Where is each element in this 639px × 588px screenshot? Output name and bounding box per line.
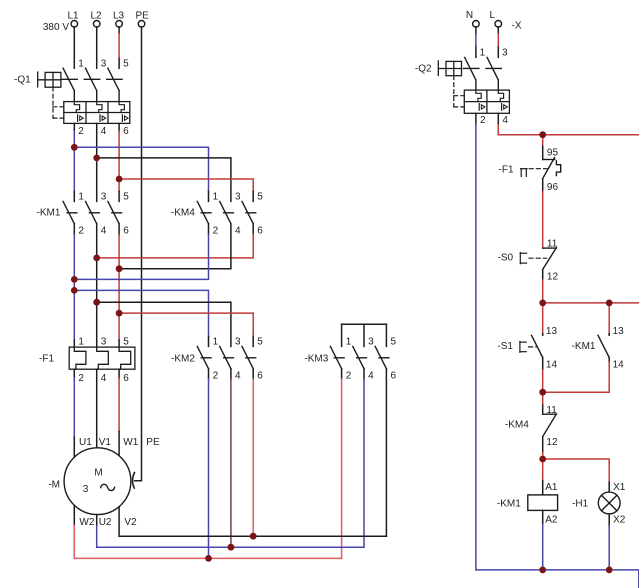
wire blue rail U2 to KM3 pole2 (97, 546, 364, 548)
contactor KM2 pole2 contact (220, 346, 234, 368)
node V2 rail / KM2-6 (250, 533, 257, 540)
svg-text:PE: PE (136, 11, 150, 22)
KM3 star bridge bar (342, 323, 387, 325)
wire S0 to junction (542, 269, 544, 280)
svg-text:4: 4 (101, 226, 107, 237)
breaker Q2 pole 1 contact (464, 57, 479, 90)
svg-text:-S0: -S0 (498, 253, 514, 264)
svg-text:4: 4 (368, 371, 374, 382)
motor PE chassis arc (132, 473, 134, 489)
wire S1 branch drop (542, 303, 544, 334)
wire L3 to Q1 (118, 27, 120, 68)
wire F1 pole1 to motor U1 (73, 369, 75, 378)
breaker Q1 thermal element pole1 (74, 102, 79, 113)
svg-text:-KM1: -KM1 (37, 208, 61, 219)
wire Q1 pole1 output stub (73, 123, 75, 131)
breaker Q1 pole 3 contact (107, 68, 122, 101)
wire junction3 branch to lamp (543, 459, 610, 482)
svg-text:A1: A1 (545, 482, 558, 493)
node coil/lamp feed (539, 456, 546, 463)
svg-text:5: 5 (257, 192, 263, 203)
wire KM3 bridge to pole3 (385, 324, 387, 346)
breaker Q2 magnetic element pole1 (479, 104, 485, 111)
wire PE vertical (135, 27, 142, 481)
contactor KM3 pole3 contact (375, 346, 389, 368)
wire motor V2 black (118, 507, 120, 536)
node L1-KM4 branch (71, 144, 78, 151)
wire KM1 pole1 to F1 blue (73, 224, 75, 235)
breaker Q1 thermal element pole3 (119, 102, 124, 113)
svg-text:1: 1 (213, 192, 219, 203)
svg-text:3: 3 (101, 58, 107, 69)
breaker Q2 thermal element pole2 (498, 90, 503, 102)
contactor KM2 pole1 contact (197, 346, 211, 368)
contactor KM1 pole1 contact (63, 201, 77, 223)
breaker Q2 operator square (438, 61, 461, 76)
wire KM1 pole1 to KM2 pole1 blue (74, 290, 208, 336)
node KM1-2/KM4-6 (93, 255, 100, 262)
wire KM2 pole3 bottom red to black rail (252, 369, 254, 379)
svg-text:3: 3 (502, 48, 508, 59)
node KM1-1/KM4-2 (71, 276, 78, 283)
node control L feed (539, 131, 546, 138)
wire KM1 pole2 to F1 black (96, 224, 98, 347)
svg-text:13: 13 (546, 326, 558, 337)
contactor KM2 pole3 contact (242, 346, 256, 368)
node KM1-1/KM2-1 (71, 287, 78, 294)
wire KM2 pole2 bottom maroon to blue rail (230, 369, 232, 379)
svg-text:11: 11 (547, 239, 558, 250)
wire red rail W2 to KM3 pole1 (74, 557, 341, 559)
svg-text:2: 2 (346, 371, 352, 382)
svg-text:6: 6 (123, 373, 129, 384)
node KM1-3/KM4-4 (116, 265, 123, 272)
wire KM1 aux to junction2 (608, 358, 610, 363)
svg-text:11: 11 (546, 405, 557, 416)
wire L phase to top red feed (497, 113, 499, 125)
svg-text:6: 6 (257, 226, 263, 237)
node U2 rail / KM2-4 (228, 544, 235, 551)
S1 pushbutton actuator (520, 342, 526, 353)
node L1 terminal (71, 21, 78, 28)
contactor KM4 pole3 contact (242, 201, 256, 223)
svg-text:3: 3 (235, 192, 241, 203)
S0 pushbutton actuator (520, 253, 526, 264)
svg-text:V2: V2 (124, 517, 137, 528)
svg-text:-F1: -F1 (499, 164, 514, 175)
svg-text:12: 12 (547, 271, 559, 282)
lamp H1 (598, 492, 620, 514)
contactor KM3 pole1 contact (330, 346, 344, 368)
S0 actuator dashed link (529, 257, 547, 259)
wire L to Q2 (497, 27, 499, 58)
svg-text:12: 12 (546, 437, 558, 448)
breaker Q2 thermal element pole1 (476, 90, 481, 102)
motor sine symbol (101, 484, 115, 490)
svg-text:2: 2 (78, 126, 84, 137)
contact KM1 aux NO 13-14 (598, 335, 609, 357)
wire coil A2 to blue rail (542, 510, 544, 524)
node X2 rail (606, 567, 613, 574)
wire lamp X1 stub (608, 482, 610, 492)
wire F1 pole2 to motor V1 (96, 369, 98, 448)
breaker Q2 magnetic element pole2 (502, 104, 508, 111)
svg-text:1: 1 (78, 192, 84, 203)
svg-text:4: 4 (502, 115, 508, 126)
contactor KM1 pole3 contact (108, 201, 122, 223)
svg-text:L1: L1 (68, 11, 80, 22)
node KM1-2/KM2-3 (93, 299, 100, 306)
node L2-KM4 branch (93, 155, 100, 162)
breaker Q2 pole 2 contact (486, 57, 501, 90)
svg-text:2: 2 (78, 226, 84, 237)
contact KM4 NC 11-12 (543, 414, 557, 437)
svg-text:M: M (94, 468, 102, 479)
wire L2 to Q1 (96, 27, 98, 68)
svg-text:-Q1: -Q1 (14, 74, 31, 85)
svg-text:3: 3 (368, 337, 374, 348)
svg-text:4: 4 (235, 226, 241, 237)
wire S1 to junction2 (542, 358, 544, 371)
node PE terminal (138, 21, 145, 28)
svg-text:1: 1 (213, 337, 219, 348)
svg-text:4: 4 (101, 126, 107, 137)
breaker Q2 linkage dashed (454, 76, 465, 107)
node L2 terminal (93, 21, 100, 28)
node L3-KM4 branch (116, 176, 123, 183)
wire black rail V2 to KM3 pole3 (119, 535, 386, 537)
contactor KM1 pole2 contact (86, 201, 100, 223)
svg-text:5: 5 (123, 337, 129, 348)
wire junction2 to KM4 NC (542, 392, 544, 405)
svg-text:6: 6 (123, 226, 129, 237)
node S1/KM1 join (539, 389, 546, 396)
wire KM4 pole2 bottom to KM1 pole3 black (119, 224, 231, 269)
svg-text:-S1: -S1 (497, 341, 513, 352)
wire Q1 pole2 output black Q1 to KM1 (96, 123, 98, 201)
wire KM3 pole1 bottom to red rail (341, 369, 343, 379)
svg-text:5: 5 (123, 58, 129, 69)
wire motor U2 blue (96, 526, 98, 547)
wire motor W2 black stub (73, 505, 75, 525)
svg-text:L2: L2 (91, 11, 103, 22)
coil KM1 (528, 495, 558, 511)
contact S0 NC 11-12 (543, 248, 557, 270)
svg-text:14: 14 (546, 359, 558, 370)
wire junction row red to right edge (543, 302, 639, 304)
svg-text:96: 96 (547, 182, 559, 193)
wire Q1 pole3 output stub (118, 123, 120, 131)
svg-text:W2: W2 (79, 517, 94, 528)
svg-text:L: L (490, 10, 496, 21)
svg-text:6: 6 (123, 126, 129, 137)
svg-text:3: 3 (101, 192, 107, 203)
wire L1 phase blue Q1 to KM1 (73, 131, 75, 191)
svg-text:1: 1 (346, 337, 352, 348)
node S0 out right (606, 300, 613, 307)
svg-text:-X: -X (512, 21, 522, 32)
svg-text:2: 2 (213, 371, 219, 382)
breaker Q1 thermal element pole2 (97, 102, 102, 113)
svg-text:3: 3 (83, 484, 89, 495)
wire black branch to KM4 pole2 (97, 158, 231, 202)
svg-text:95: 95 (547, 148, 559, 159)
svg-text:4: 4 (235, 371, 241, 382)
svg-text:-M: -M (48, 480, 60, 491)
svg-text:2: 2 (213, 226, 219, 237)
svg-text:3: 3 (235, 337, 241, 348)
svg-text:-F1: -F1 (39, 354, 54, 365)
wire F1 NC to S0 (542, 179, 544, 192)
svg-text:N: N (466, 10, 473, 21)
contactor KM4 pole2 contact (220, 201, 234, 223)
wire KM3 pole2 bottom to blue rail (363, 369, 365, 379)
contactor KM3 pole2 contact (353, 346, 367, 368)
svg-text:380 V: 380 V (43, 22, 69, 33)
node L terminal (495, 21, 502, 28)
breaker Q1 magnetic element pole3 (122, 115, 128, 121)
svg-text:4: 4 (101, 373, 107, 384)
contact F1 NC 95-96 (543, 158, 561, 179)
svg-text:V1: V1 (99, 437, 112, 448)
svg-text:-Q2: -Q2 (415, 64, 432, 75)
svg-text:-KM3: -KM3 (304, 354, 328, 365)
svg-text:-H1: -H1 (572, 499, 589, 510)
wire lamp X2 to blue rail (608, 514, 610, 526)
wire motor W2 red (73, 526, 75, 559)
thermal relay F1 box (69, 347, 135, 369)
wire N rail blue down left side (475, 113, 477, 124)
breaker Q2 trip unit box (464, 90, 509, 113)
wire control drop to F1 NC (542, 135, 544, 147)
svg-text:X1: X1 (613, 482, 626, 493)
svg-text:-KM4: -KM4 (505, 419, 529, 430)
breaker Q1 operator square (38, 72, 61, 87)
svg-text:2: 2 (78, 373, 84, 384)
wire KM3 bridge to pole1 (341, 324, 343, 346)
wire junction3 to coil A1 (542, 459, 544, 481)
F1 thermal element pole1 (74, 347, 86, 369)
F1 thermal element pole2 (97, 347, 109, 369)
wire KM1 pole2 to KM2 pole2 black (97, 302, 231, 346)
wire KM4 NC to junction3 (542, 437, 544, 453)
wire red branch to KM4 pole3 (119, 179, 253, 191)
S1 actuator dashed link (529, 346, 537, 348)
svg-text:-KM1: -KM1 (497, 499, 521, 510)
node W2 rail / KM2-2 (205, 555, 212, 562)
wire motor U2 black stub (96, 515, 98, 526)
svg-text:5: 5 (257, 337, 263, 348)
breaker Q1 linkage dashed (53, 87, 64, 118)
wire N rail blue bottom (476, 570, 639, 588)
wire KM1 pole3 to F1 red (118, 224, 120, 235)
svg-text:5: 5 (123, 192, 129, 203)
node KM1-3/KM2-5 (116, 310, 123, 317)
breaker Q1 pole 1 contact (62, 68, 77, 101)
motor M circle (64, 448, 131, 515)
svg-text:1: 1 (78, 58, 84, 69)
svg-text:A2: A2 (545, 515, 558, 526)
svg-text:3: 3 (101, 337, 107, 348)
svg-text:1: 1 (480, 48, 486, 59)
node L3 terminal (116, 21, 123, 28)
wire N to Q2 (475, 27, 477, 58)
node A2 rail (539, 567, 546, 574)
F1 actuator dashed link (529, 168, 547, 170)
contact S1 NO 13-14 (532, 335, 543, 357)
svg-text:U1: U1 (79, 437, 92, 448)
svg-text:14: 14 (613, 359, 625, 370)
breaker Q1 pole 2 contact (84, 68, 99, 101)
wire F1 pole3 to motor W1 (118, 369, 120, 378)
breaker Q1 magnetic element pole2 (100, 115, 106, 121)
wire KM3 bridge to pole2 (363, 324, 365, 346)
breaker Q1 magnetic element pole1 (78, 115, 84, 121)
svg-text:5: 5 (391, 337, 397, 348)
svg-text:L3: L3 (113, 11, 125, 22)
svg-text:-KM2: -KM2 (171, 354, 195, 365)
node N terminal (473, 21, 480, 28)
breaker Q1 trip unit box (64, 102, 130, 124)
wire KM1 pole3 to KM2 pole3 red (119, 313, 253, 336)
wire KM4 pole1 bottom to KM1 pole1 blue (208, 224, 210, 235)
F1 trip actuator symbol (521, 169, 528, 177)
svg-text:X2: X2 (613, 515, 626, 526)
svg-text:6: 6 (391, 371, 397, 382)
wire KM1 aux branch drop (608, 303, 610, 334)
wire L1 to Q1 (73, 27, 75, 68)
svg-text:U2: U2 (99, 517, 112, 528)
contactor KM4 pole1 contact (197, 201, 211, 223)
wire L3 phase red Q1 to KM1 (118, 131, 120, 191)
wire KM4 pole3 bottom to KM1 pole2 red (252, 224, 254, 235)
wire KM2 pole1 bottom blue to red rail (208, 369, 210, 379)
svg-text:-KM1: -KM1 (572, 341, 596, 352)
svg-text:6: 6 (257, 371, 263, 382)
svg-text:1: 1 (78, 337, 84, 348)
svg-text:13: 13 (613, 326, 625, 337)
node S0 out left (539, 300, 546, 307)
svg-text:2: 2 (480, 115, 486, 126)
svg-text:PE: PE (146, 437, 160, 448)
wire blue branch to KM4 pole1 (74, 147, 208, 191)
wire KM3 pole3 bottom to black rail (385, 369, 387, 537)
F1 thermal element pole3 (119, 347, 131, 369)
svg-text:W1: W1 (123, 437, 138, 448)
svg-text:-KM4: -KM4 (171, 208, 195, 219)
